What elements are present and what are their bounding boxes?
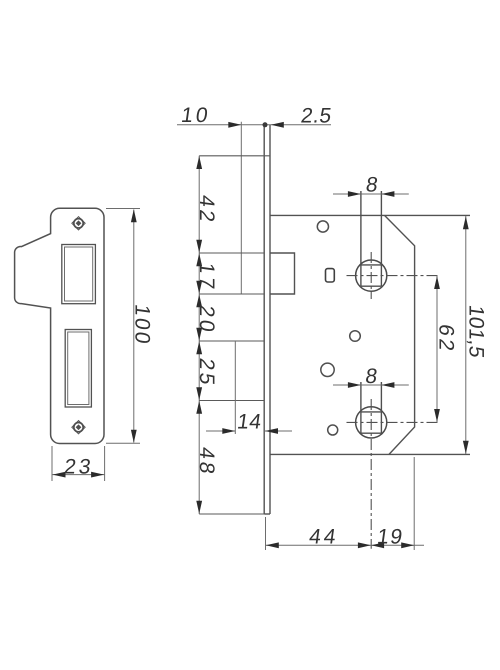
dimension 25 bbox=[196, 341, 202, 354]
dimension 42 bbox=[196, 156, 202, 169]
svg-text:17: 17 bbox=[195, 261, 218, 294]
screw post circle top bbox=[317, 221, 328, 232]
svg-text:19: 19 bbox=[376, 526, 406, 549]
lower hub center lines bbox=[347, 399, 441, 549]
strike plate outline bbox=[15, 208, 104, 443]
svg-text:2.5: 2.5 bbox=[299, 104, 333, 127]
extension line for 10 bbox=[240, 122, 242, 294]
dimension 44 bbox=[266, 457, 425, 550]
lock faceplate bbox=[264, 125, 270, 514]
svg-text:25: 25 bbox=[195, 357, 218, 390]
strike plate screw hole bottom bbox=[72, 421, 85, 434]
screw post circle middle bbox=[350, 331, 361, 342]
svg-text:14: 14 bbox=[236, 411, 264, 434]
svg-text:10: 10 bbox=[180, 104, 213, 127]
lock body outline bbox=[270, 214, 470, 216]
svg-text:23: 23 bbox=[63, 456, 96, 479]
svg-text:101,5: 101,5 bbox=[465, 304, 488, 360]
svg-text:44: 44 bbox=[308, 526, 341, 549]
dimension 23 bbox=[52, 446, 105, 481]
strike plate screw hole top bbox=[72, 217, 85, 230]
dimension 10 bbox=[177, 124, 331, 126]
screw post circle left bbox=[321, 363, 334, 376]
dimension 19 bbox=[371, 542, 384, 548]
dimension 8 lower bbox=[333, 384, 409, 386]
screw post circle bottom bbox=[328, 425, 338, 435]
lower spindle hub bbox=[356, 407, 387, 438]
dimension 48 bbox=[196, 401, 202, 414]
svg-text:48: 48 bbox=[195, 446, 218, 479]
upper hub center lines bbox=[347, 252, 441, 299]
svg-text:42: 42 bbox=[195, 194, 218, 227]
svg-text:62: 62 bbox=[435, 323, 458, 356]
svg-text:8: 8 bbox=[364, 174, 379, 197]
svg-text:100: 100 bbox=[131, 303, 154, 347]
chain dimension line bbox=[198, 156, 200, 514]
strike plate deadbolt cutout bbox=[65, 330, 91, 408]
dimension 17 bbox=[196, 253, 202, 266]
dimension 2.5 bbox=[271, 122, 284, 128]
dimension 100 bbox=[106, 209, 140, 444]
latch bolt bbox=[270, 253, 295, 294]
dimension 62 bbox=[436, 276, 438, 423]
svg-text:20: 20 bbox=[195, 304, 218, 337]
dimension 14 bbox=[234, 341, 236, 434]
upper spindle hub bbox=[356, 260, 387, 291]
dimension 8 upper bbox=[333, 193, 409, 195]
slot bbox=[326, 269, 335, 282]
dimension 101.5 bbox=[465, 216, 467, 454]
dimension 20 bbox=[196, 294, 202, 307]
strike plate latch cutout bbox=[62, 245, 96, 304]
